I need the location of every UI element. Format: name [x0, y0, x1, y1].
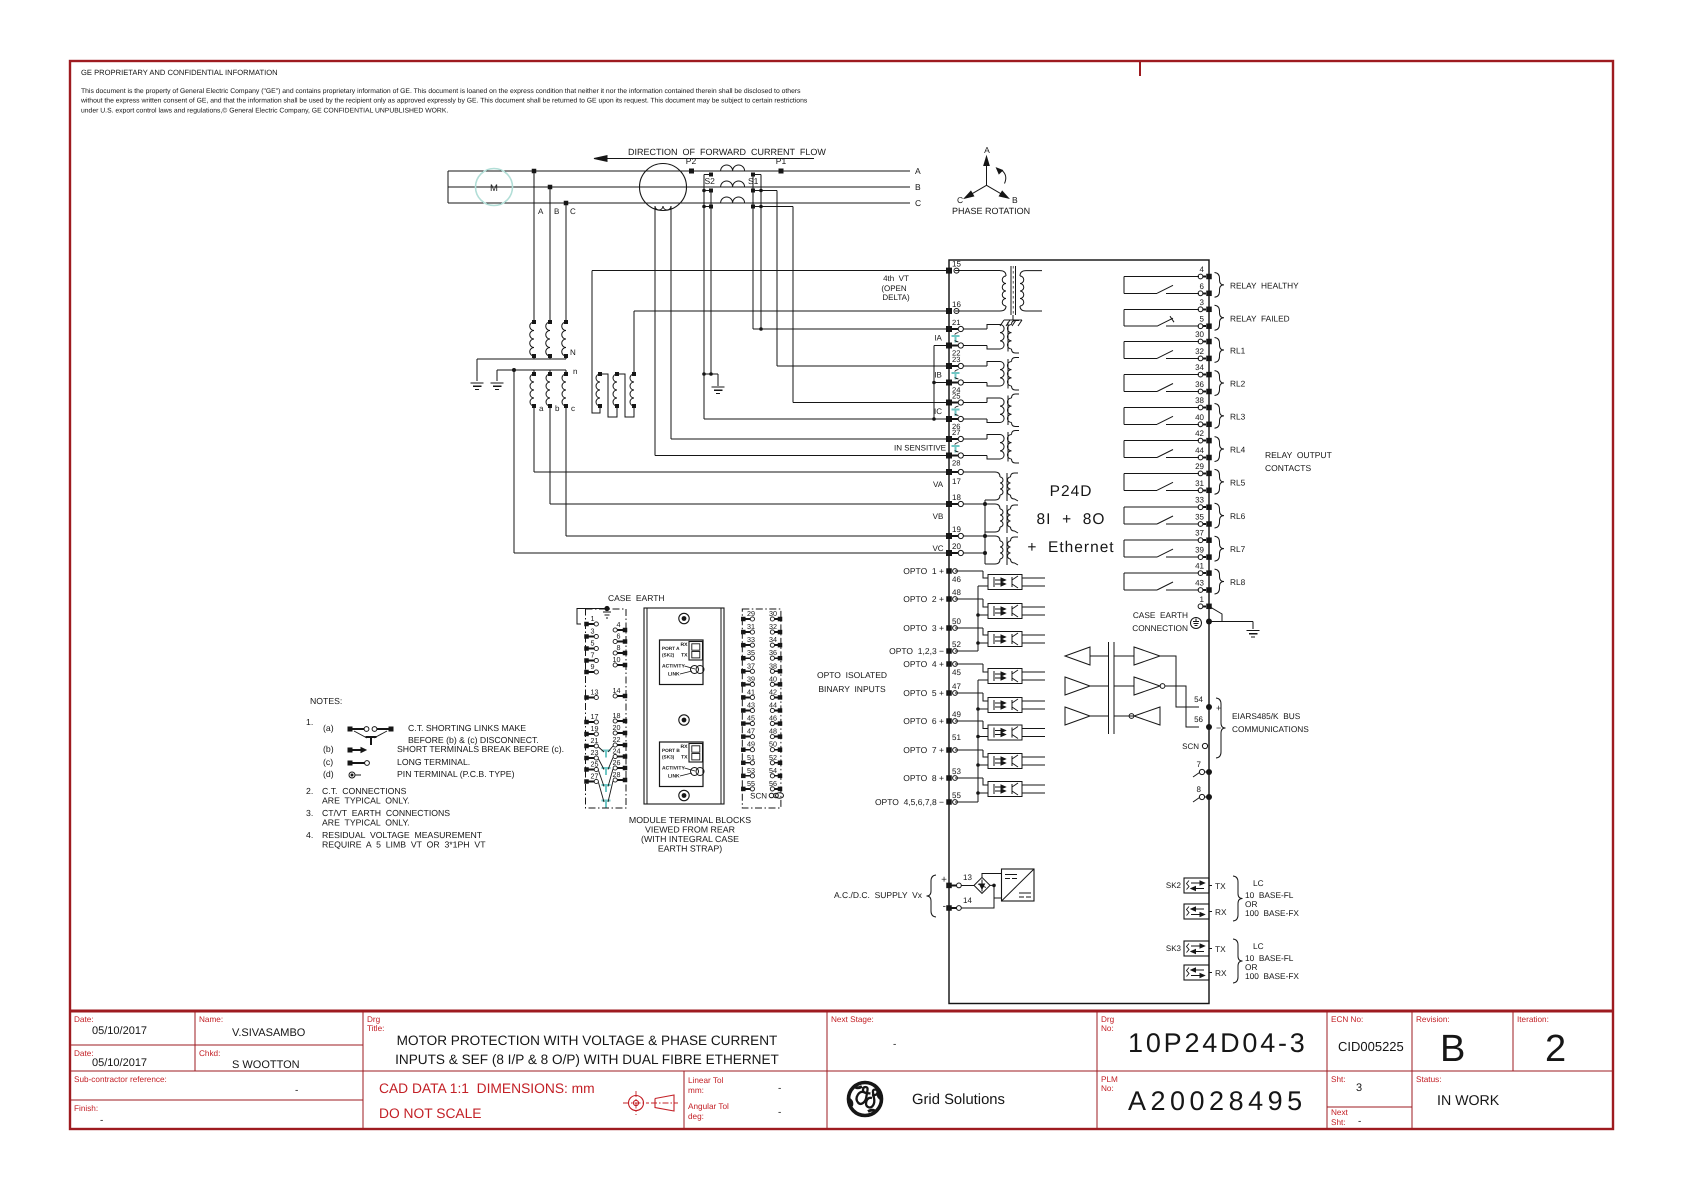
module rear view outline	[644, 608, 724, 804]
terminal 37	[1198, 538, 1203, 543]
svg-text:Grid Solutions: Grid Solutions	[912, 1092, 1005, 1108]
relay contact RL3	[1124, 407, 1199, 409]
right block terminal 48	[778, 734, 783, 739]
svg-text:OPTO 1,2,3 −: OPTO 1,2,3 −	[889, 646, 944, 656]
svg-text:Sht:: Sht:	[1331, 1075, 1346, 1084]
RS485 driver triangle 2	[1065, 677, 1090, 695]
svg-text:36: 36	[769, 648, 777, 657]
svg-text:29: 29	[1195, 462, 1204, 471]
svg-text:43: 43	[747, 700, 755, 709]
right block terminal 52	[778, 761, 783, 766]
relay contact RL1	[1124, 341, 1199, 343]
svg-text:19: 19	[591, 724, 599, 733]
relay contact RELAY FAILED	[1124, 308, 1199, 310]
svg-text:17: 17	[591, 712, 599, 721]
svg-text:-: -	[893, 1039, 896, 1050]
svg-text:6: 6	[617, 632, 621, 641]
svg-text:SHORT TERMINALS BREAK BEFORE (: SHORT TERMINALS BREAK BEFORE (c).	[397, 744, 564, 754]
terminal 41	[1198, 571, 1203, 576]
svg-text:RL1: RL1	[1230, 345, 1246, 355]
CT earth ground symbol	[712, 386, 725, 388]
svg-text:53: 53	[952, 767, 961, 776]
svg-text:RL5: RL5	[1230, 477, 1246, 487]
terminal 13	[946, 883, 952, 889]
svg-text:3.: 3.	[306, 808, 313, 818]
svg-text:P1: P1	[776, 156, 787, 166]
svg-text:LC: LC	[1253, 878, 1264, 888]
svg-text:Status:: Status:	[1416, 1075, 1442, 1084]
svg-text:OPTO 2 +: OPTO 2 +	[903, 594, 944, 604]
svg-text:3: 3	[591, 627, 595, 636]
relay contact RL7	[1124, 539, 1199, 541]
wire n to terminal 20	[513, 370, 515, 553]
svg-text:33: 33	[1195, 496, 1204, 505]
right block terminal 55	[741, 787, 746, 792]
left block terminal 26	[623, 766, 628, 771]
svg-text:Drg: Drg	[1101, 1015, 1115, 1024]
phase C drop to VT	[565, 203, 567, 322]
svg-text:16: 16	[952, 300, 961, 309]
svg-text:PHASE ROTATION: PHASE ROTATION	[952, 206, 1030, 216]
svg-text:Next Stage:: Next Stage:	[831, 1015, 874, 1024]
svg-text:MOTOR PROTECTION WITH VOLTAGE: MOTOR PROTECTION WITH VOLTAGE & PHASE CU…	[397, 1033, 778, 1048]
CT secondary stubs row B	[704, 190, 711, 192]
relay contact RL5	[1124, 472, 1199, 474]
phase B drop to VT	[549, 187, 551, 322]
svg-text:23: 23	[591, 748, 599, 757]
svg-text:39: 39	[747, 674, 755, 683]
terminal 19	[946, 533, 952, 539]
VT secondary neutral bus n	[497, 369, 566, 371]
svg-text:A.C./D.C. SUPPLY Vx: A.C./D.C. SUPPLY Vx	[834, 890, 923, 900]
left terminal block outline	[586, 609, 627, 808]
svg-text:OPTO 4 +: OPTO 4 +	[903, 659, 944, 669]
wire b to terminal 18 VB	[549, 406, 551, 504]
brace RL5	[1215, 469, 1225, 494]
terminal 27	[946, 436, 952, 442]
CT shorting link IB	[952, 372, 960, 374]
svg-text:OPTO 7 +: OPTO 7 +	[903, 745, 944, 755]
svg-text:DELTA): DELTA)	[882, 293, 910, 302]
terminal 25	[946, 400, 952, 406]
RS485 driver triangle 1	[1065, 647, 1090, 665]
right block terminal 31	[741, 630, 746, 635]
relay contact RL4	[1124, 440, 1199, 442]
supply wiring	[982, 874, 1002, 878]
left block terminal 14	[623, 694, 628, 699]
input transformer IN SENSITIVE	[964, 438, 988, 440]
right block terminal 46	[778, 721, 783, 726]
svg-text:RX: RX	[681, 744, 689, 750]
wire a to terminal 17 VA	[533, 406, 535, 472]
svg-text:M: M	[490, 183, 498, 194]
CT secondary stubs row A	[704, 174, 711, 176]
svg-text:30: 30	[769, 609, 777, 618]
svg-text:SCN: SCN	[750, 792, 767, 801]
VT primary coil c	[564, 320, 568, 324]
terminal 17	[946, 469, 952, 475]
svg-text:PORT A: PORT A	[662, 646, 680, 651]
svg-text:52: 52	[952, 640, 961, 649]
svg-text:Linear Tol: Linear Tol	[688, 1076, 724, 1085]
relay contact RELAY HEALTHY	[1124, 276, 1199, 278]
svg-text:LINK: LINK	[668, 672, 680, 678]
svg-text:43: 43	[1195, 579, 1204, 588]
terminal 7	[1199, 769, 1204, 774]
terminal 45 OPTO 4 +	[946, 661, 952, 667]
open delta winding coil 2	[615, 372, 619, 376]
CT shorting link IA	[952, 335, 960, 337]
svg-text:(SK2): (SK2)	[662, 653, 675, 658]
svg-text:CAD DATA 1:1 DIMENSIONS: mm: CAD DATA 1:1 DIMENSIONS: mm	[379, 1081, 595, 1096]
right block terminal 29	[741, 617, 746, 622]
brace RL3	[1215, 404, 1225, 429]
svg-text:13: 13	[591, 688, 599, 697]
optocoupler at 789	[955, 777, 983, 779]
svg-text:8I + 8O: 8I + 8O	[1037, 511, 1106, 528]
left block terminal 4	[623, 628, 628, 633]
svg-text:Angular Tol: Angular Tol	[688, 1102, 729, 1111]
svg-text:CONNECTION: CONNECTION	[1132, 623, 1188, 633]
svg-text:15: 15	[952, 260, 961, 269]
svg-text:54: 54	[769, 766, 777, 775]
svg-text:40: 40	[1195, 413, 1204, 422]
terminal 30	[1198, 339, 1203, 344]
svg-text:100 BASE-FX: 100 BASE-FX	[1245, 908, 1299, 918]
svg-text:(OPEN: (OPEN	[881, 284, 907, 293]
right block terminal 49	[741, 747, 746, 752]
terminal 49 OPTO 6 +	[946, 718, 952, 724]
svg-text:55: 55	[952, 791, 961, 800]
svg-text:49: 49	[747, 740, 755, 749]
VT primary earth	[471, 382, 484, 384]
svg-text:CASE EARTH: CASE EARTH	[1133, 610, 1188, 620]
svg-text:VA: VA	[933, 480, 944, 489]
svg-text:DIRECTION OF FORWARD CURREN: DIRECTION OF FORWARD CURRENT FLOW	[628, 147, 826, 157]
module port B	[660, 742, 704, 787]
brace RL2	[1215, 371, 1225, 396]
open delta winding coil 3	[632, 372, 636, 376]
CT secondary drop wires	[703, 175, 705, 420]
svg-text:Drg: Drg	[367, 1015, 381, 1024]
CT shorting links on block	[602, 750, 611, 752]
4th VT secondary earth	[1012, 315, 1014, 320]
svg-text:40: 40	[769, 674, 777, 683]
svg-text:5: 5	[591, 639, 595, 648]
right block terminal 51	[741, 761, 746, 766]
svg-text:a: a	[539, 404, 544, 413]
left block terminal 6	[623, 639, 628, 644]
left block terminal 21	[584, 744, 589, 749]
svg-text:3: 3	[1200, 298, 1205, 307]
svg-text:46: 46	[952, 575, 961, 584]
svg-text:PORT B: PORT B	[662, 748, 680, 753]
wire to terminal 16	[634, 310, 946, 312]
svg-text:48: 48	[952, 588, 961, 597]
svg-text:IC: IC	[934, 407, 942, 416]
svg-text:IN SENSITIVE: IN SENSITIVE	[894, 443, 946, 452]
svg-text:n: n	[573, 367, 577, 376]
svg-text:2: 2	[1545, 1028, 1566, 1070]
first angle projection symbol	[629, 1096, 644, 1111]
svg-text:Name:: Name:	[199, 1015, 223, 1024]
terminal 50 OPTO 3 +	[946, 625, 952, 631]
supply rectifier diode	[961, 884, 974, 886]
svg-text:7: 7	[1197, 760, 1202, 769]
terminal 23	[946, 363, 952, 369]
left block terminal 28	[623, 778, 628, 783]
left block terminal 19	[584, 732, 589, 737]
svg-text:IB: IB	[934, 370, 942, 379]
RS485 wires to terminals	[1160, 656, 1199, 707]
svg-text:OPTO 1 +: OPTO 1 +	[903, 566, 944, 576]
right block terminal 33	[741, 643, 746, 648]
phase A drop to VT	[533, 171, 535, 322]
svg-text:34: 34	[769, 635, 777, 644]
top zone tick mark	[1139, 61, 1141, 76]
core CT secondary wires to 27 28	[654, 206, 656, 456]
left block terminal 25	[584, 767, 589, 772]
svg-text:2.: 2.	[306, 786, 313, 796]
4th VT transformer	[955, 270, 1000, 272]
svg-text:1: 1	[591, 614, 595, 623]
svg-text:RELAY HEALTHY: RELAY HEALTHY	[1230, 280, 1299, 290]
svg-text:RL8: RL8	[1230, 577, 1246, 587]
svg-text:1.: 1.	[306, 717, 313, 727]
left block terminal 23	[584, 756, 589, 761]
relay case outline P24D	[949, 260, 1209, 1004]
left block terminal 1	[584, 622, 589, 627]
RS485 receiver triangle 3	[1134, 707, 1160, 725]
svg-text:S2: S2	[705, 176, 716, 186]
terminal 32	[1198, 356, 1203, 361]
right block terminal 30	[778, 617, 783, 622]
svg-text:Next: Next	[1331, 1108, 1349, 1117]
relay contact RL6	[1124, 506, 1199, 508]
svg-text:LONG TERMINAL.: LONG TERMINAL.	[397, 757, 470, 767]
svg-text:56: 56	[769, 779, 777, 788]
brace RL8	[1215, 569, 1225, 594]
svg-text:56: 56	[1194, 715, 1203, 724]
terminal 47 OPTO 5 +	[946, 690, 952, 696]
fibre port SK2 TX	[1184, 878, 1209, 893]
right block terminal 37	[741, 669, 746, 674]
svg-text:46: 46	[769, 714, 777, 723]
svg-text:−: −	[1216, 723, 1221, 733]
phase rotation vector diagram	[986, 163, 988, 185]
terminal 33	[1198, 505, 1203, 510]
CT primary P2 P1 markers	[689, 169, 694, 174]
svg-text:C: C	[570, 207, 576, 216]
svg-text:25: 25	[952, 392, 960, 401]
right block terminal 54	[778, 774, 783, 779]
VT primary coil b	[548, 320, 552, 324]
svg-text:OPTO 8 +: OPTO 8 +	[903, 773, 944, 783]
svg-text:EARTH STRAP): EARTH STRAP)	[658, 843, 722, 853]
svg-text:35: 35	[747, 648, 755, 657]
svg-text:-: -	[1358, 1116, 1361, 1127]
relay contact RL8	[1124, 572, 1199, 574]
svg-text:37: 37	[1195, 529, 1204, 538]
left block terminal 20	[623, 731, 628, 736]
terminal 14	[946, 905, 952, 911]
terminal 6	[1198, 291, 1203, 296]
svg-text:SK3: SK3	[1166, 944, 1182, 953]
left block terminal 10	[623, 663, 628, 668]
svg-text:29: 29	[747, 609, 755, 618]
svg-text:28: 28	[952, 459, 960, 468]
optocoupler at 611	[955, 598, 983, 600]
svg-text:Finish:: Finish:	[74, 1104, 98, 1113]
terminal 26	[946, 416, 952, 422]
svg-text:-: -	[778, 1107, 781, 1118]
svg-text:20: 20	[613, 723, 621, 732]
wire IA to terminal 21	[753, 328, 946, 330]
svg-text:23: 23	[952, 355, 960, 364]
svg-text:25: 25	[591, 760, 599, 769]
svg-text:55: 55	[747, 779, 755, 788]
svg-text:19: 19	[952, 525, 961, 534]
svg-text:-: -	[295, 1085, 298, 1096]
fibre port SK2 RX	[1184, 904, 1209, 919]
svg-text:35: 35	[1195, 513, 1204, 522]
brace RL1	[1215, 338, 1225, 363]
svg-text:C.T. CONNECTIONS: C.T. CONNECTIONS	[322, 786, 407, 796]
title block grid lines	[70, 1044, 363, 1046]
case earth symbol	[1191, 618, 1202, 629]
svg-text:NOTES:: NOTES:	[310, 696, 342, 706]
svg-text:OPTO 3 +: OPTO 3 +	[903, 623, 944, 633]
svg-text:RL3: RL3	[1230, 411, 1246, 421]
svg-text:22: 22	[613, 735, 621, 744]
svg-text:B: B	[554, 207, 559, 216]
RS485 receiver triangle 2	[1134, 677, 1160, 695]
case earth ground	[1252, 622, 1254, 630]
wire to terminal 15	[592, 270, 946, 272]
svg-text:RL2: RL2	[1230, 379, 1246, 389]
optocoupler at 732.5	[955, 720, 983, 722]
svg-text:P24D: P24D	[1050, 483, 1093, 500]
wire common to terminal 26	[704, 418, 946, 420]
svg-text:CT/VT EARTH CONNECTIONS: CT/VT EARTH CONNECTIONS	[322, 808, 450, 818]
power supply module	[1002, 869, 1035, 901]
terminal 4	[1198, 274, 1203, 279]
terminal 24	[946, 380, 952, 386]
terminal 3	[1198, 307, 1203, 312]
svg-text:Sht:: Sht:	[1331, 1118, 1346, 1127]
svg-text:C: C	[915, 198, 921, 208]
CT common bus to terminals 22 24	[933, 346, 935, 420]
svg-text:C: C	[957, 195, 963, 205]
brace RL6	[1215, 503, 1225, 528]
svg-text:A: A	[915, 166, 921, 176]
svg-text:50: 50	[769, 740, 777, 749]
fibre port SK3 TX	[1184, 941, 1209, 956]
svg-text:45: 45	[952, 668, 961, 677]
svg-text:P2: P2	[686, 156, 697, 166]
right block terminal 39	[741, 682, 746, 687]
svg-text:REQUIRE A 5 LIMB VT OR 3: REQUIRE A 5 LIMB VT OR 3*1PH VT	[322, 840, 486, 850]
svg-text:(a): (a)	[323, 723, 334, 733]
left block terminal 17	[584, 720, 589, 725]
svg-text:Date:: Date:	[74, 1049, 94, 1058]
RS485 receiver triangle 1	[1134, 647, 1160, 665]
svg-text:8: 8	[1197, 785, 1202, 794]
svg-text:(d): (d)	[323, 769, 334, 779]
VT secondary earth	[491, 382, 504, 384]
svg-text:V.SIVASAMBO: V.SIVASAMBO	[232, 1027, 306, 1039]
right block terminal 53	[741, 774, 746, 779]
svg-text:Revision:: Revision:	[1416, 1015, 1450, 1024]
svg-text:+: +	[1216, 703, 1221, 713]
terminal 46 OPTO 1 +	[946, 568, 952, 574]
svg-text:RL6: RL6	[1230, 511, 1246, 521]
svg-text:CID005225: CID005225	[1338, 1039, 1404, 1054]
svg-text:21: 21	[952, 318, 960, 327]
right block terminal 56	[778, 787, 783, 792]
terminal 16	[946, 308, 952, 314]
terminal 21	[946, 326, 952, 332]
svg-text:31: 31	[747, 622, 755, 631]
svg-text:+ Ethernet: + Ethernet	[1027, 539, 1114, 556]
terminal 31	[1198, 488, 1203, 493]
svg-text:-: -	[100, 1115, 103, 1126]
three phase bus lines	[448, 170, 910, 172]
terminal 18	[946, 501, 952, 507]
svg-text:OPTO 5 +: OPTO 5 +	[903, 688, 944, 698]
RS485 brace	[1216, 698, 1226, 758]
right block terminal 34	[778, 643, 783, 648]
module port A	[660, 640, 704, 685]
relay contact RL2	[1124, 374, 1199, 376]
svg-text:54: 54	[1194, 695, 1203, 704]
svg-text:IN WORK: IN WORK	[1437, 1093, 1500, 1109]
svg-text:(SK3): (SK3)	[662, 755, 675, 760]
voltage input transformer VC	[964, 535, 996, 537]
terminal 48 OPTO 2 +	[946, 596, 952, 602]
svg-text:TX: TX	[1215, 944, 1226, 954]
svg-text:14: 14	[613, 686, 621, 695]
svg-text:RESIDUAL VOLTAGE MEASUREMENT: RESIDUAL VOLTAGE MEASUREMENT	[322, 830, 483, 840]
svg-text:5: 5	[1200, 315, 1205, 324]
wire IC to terminal 25	[793, 402, 946, 404]
svg-text:N: N	[570, 348, 576, 357]
open delta winding coil 1	[598, 372, 602, 376]
svg-text:SK2: SK2	[1166, 881, 1182, 890]
module screws	[679, 613, 689, 623]
svg-text:CASE EARTH: CASE EARTH	[608, 593, 665, 603]
left block terminal 13	[584, 695, 589, 700]
terminal 34	[1198, 372, 1203, 377]
core balance CT secondary winding	[655, 206, 671, 210]
fibre port SK3 RX	[1184, 965, 1209, 980]
right block terminal 38	[778, 669, 783, 674]
svg-text:PLM: PLM	[1101, 1075, 1118, 1084]
right block terminal 43	[741, 708, 746, 713]
line CT phase C	[721, 197, 745, 203]
svg-text:ARE TYPICAL ONLY.: ARE TYPICAL ONLY.	[322, 796, 410, 806]
svg-text:PIN TERMINAL (P.C.B. TYPE): PIN TERMINAL (P.C.B. TYPE)	[397, 769, 515, 779]
wire IB to terminal 23	[777, 365, 946, 367]
input transformer IC	[964, 402, 988, 404]
svg-text:OPTO 6 +: OPTO 6 +	[903, 716, 944, 726]
svg-text:26: 26	[613, 758, 621, 767]
right block terminal 42	[778, 695, 783, 700]
terminal 35	[1198, 522, 1203, 527]
svg-text:(c): (c)	[323, 757, 333, 767]
svg-text:CONTACTS: CONTACTS	[1265, 463, 1311, 473]
svg-text:RX: RX	[1215, 907, 1227, 917]
